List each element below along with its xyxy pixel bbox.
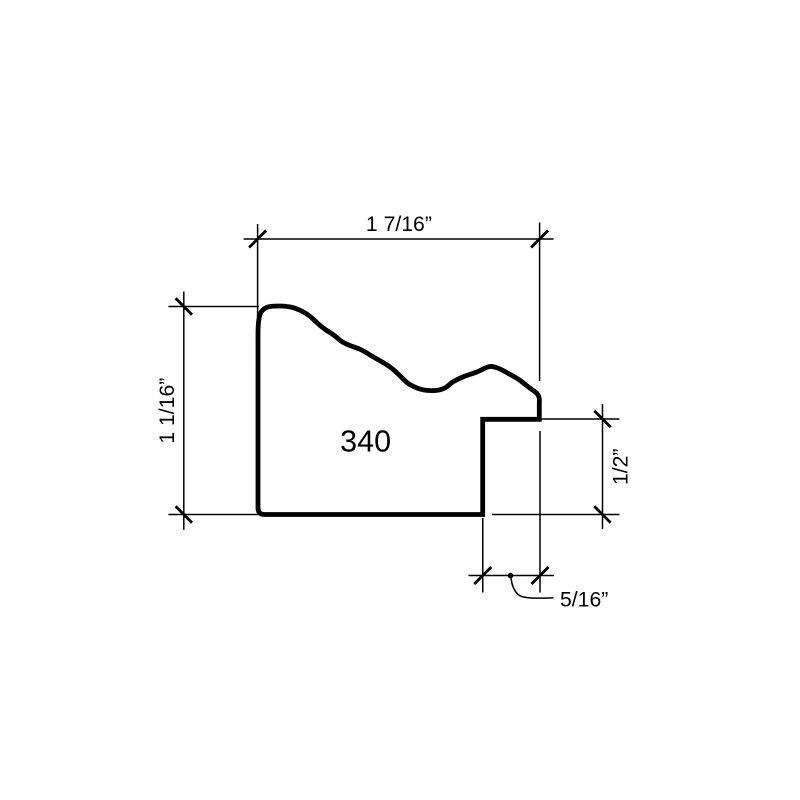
tick bottom-left	[474, 567, 491, 584]
tick bottom-right	[532, 567, 549, 584]
tick top-left	[249, 231, 266, 248]
left top tick line	[168, 306, 259, 308]
moulding profile outline 340	[258, 306, 539, 515]
right dimension line	[602, 404, 604, 529]
tick left-lower	[176, 506, 192, 522]
left bottom tick line	[168, 514, 261, 516]
extension line bottom-left	[482, 518, 484, 593]
left dimension line	[183, 292, 185, 530]
top dimension line	[244, 238, 554, 240]
svg-text:1/2”: 1/2”	[610, 449, 633, 486]
svg-text:1 1/16”: 1 1/16”	[156, 378, 179, 444]
svg-text:5/16”: 5/16”	[560, 589, 608, 612]
extension line top-right	[539, 223, 541, 382]
leader dot	[508, 573, 514, 579]
svg-text:340: 340	[340, 424, 391, 458]
leader curve for 5/16	[511, 576, 554, 598]
right top tick line	[541, 418, 620, 420]
extension line bottom-right	[539, 431, 541, 593]
tick right-lower	[594, 506, 610, 522]
tick top-right	[531, 231, 548, 248]
svg-text:1 7/16”: 1 7/16”	[366, 213, 432, 236]
extension line top-left	[257, 224, 259, 318]
tick left-upper	[176, 298, 192, 314]
bottom dimension line	[469, 575, 555, 577]
right bottom tick line	[492, 514, 620, 516]
tick right-upper	[594, 411, 610, 427]
